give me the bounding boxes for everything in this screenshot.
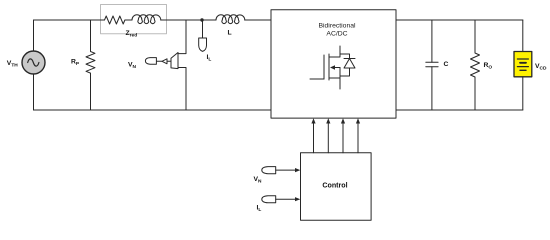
battery VCD: [514, 20, 532, 110]
goto tag IL: [199, 38, 207, 51]
source stub: [329, 77, 340, 79]
impedance box Zred (gray outline): [101, 5, 167, 34]
from tag VN (control input): [262, 167, 301, 174]
wire gate signal 3: [342, 123, 344, 153]
svg-text:L: L: [228, 30, 232, 37]
wire bottom rail: [34, 109, 272, 111]
svg-text:C: C: [444, 61, 449, 68]
voltage source VTH: [22, 20, 45, 110]
node junction: [200, 18, 203, 21]
wire gate signal 1: [313, 123, 315, 153]
body arrow stub: [335, 67, 341, 69]
wire: [125, 19, 132, 21]
converter block Bidirectional AC/DC: [271, 10, 396, 118]
channel bar: [328, 54, 330, 80]
wire node to IL tag: [202, 20, 204, 38]
wire gate signal 4: [357, 123, 359, 153]
capacitor C: [426, 20, 438, 110]
wire top rail left: [34, 19, 105, 21]
inductor L (coil): [216, 15, 245, 24]
drain stub: [329, 46, 340, 57]
wire converter right bottom: [396, 109, 523, 111]
resistor Zred series (horizontal zigzag): [105, 16, 125, 24]
MOSFET U1 inside converter: [310, 46, 355, 89]
resistor RO (vertical zigzag): [471, 20, 480, 110]
control block: [301, 153, 372, 220]
body diode D1: [340, 54, 350, 59]
inductor Zred series (coil): [132, 15, 161, 24]
gate lead: [310, 78, 324, 80]
gate signal arrows converter-control: [311, 118, 360, 153]
voltmeter sensor VN (trapezoid): [157, 20, 187, 110]
svg-text:AC/DC: AC/DC: [326, 31, 347, 38]
from tag IL (control input): [262, 196, 301, 203]
wire node to L: [202, 19, 216, 21]
resistor RP (vertical zigzag): [86, 20, 95, 110]
svg-text:Control: Control: [322, 181, 347, 189]
goto tag VN: [145, 58, 156, 65]
wire top rail to node: [161, 19, 202, 21]
svg-text:Bidirectional: Bidirectional: [318, 22, 356, 29]
wire gate signal 2: [327, 123, 329, 153]
wire converter right top: [396, 19, 523, 21]
wire L to converter: [245, 19, 271, 21]
gate bar: [323, 55, 325, 79]
